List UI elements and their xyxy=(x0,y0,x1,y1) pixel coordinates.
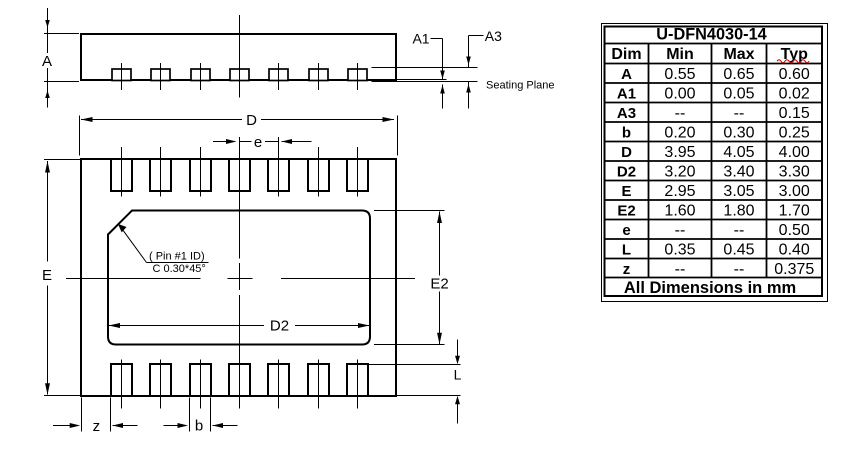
svg-text:0.05: 0.05 xyxy=(723,86,754,103)
svg-text:3.05: 3.05 xyxy=(723,183,754,200)
svg-text:--: -- xyxy=(734,261,745,278)
svg-text:--: -- xyxy=(675,222,686,239)
svg-text:U-DFN4030-14: U-DFN4030-14 xyxy=(656,26,766,44)
svg-text:z: z xyxy=(93,418,101,435)
svg-text:0.375: 0.375 xyxy=(774,261,814,278)
svg-text:E2: E2 xyxy=(430,275,448,292)
svg-text:e: e xyxy=(622,222,630,239)
svg-text:0.00: 0.00 xyxy=(664,86,695,103)
svg-text:0.02: 0.02 xyxy=(779,86,810,103)
svg-text:0.25: 0.25 xyxy=(779,125,810,142)
svg-text:E2: E2 xyxy=(617,203,635,220)
svg-text:0.15: 0.15 xyxy=(779,105,810,122)
svg-text:1.70: 1.70 xyxy=(779,203,810,220)
svg-text:Dim: Dim xyxy=(611,46,641,63)
svg-text:0.50: 0.50 xyxy=(779,222,810,239)
svg-text:3.30: 3.30 xyxy=(779,164,810,181)
svg-text:A: A xyxy=(42,53,52,70)
svg-text:b: b xyxy=(622,125,631,142)
svg-text:--: -- xyxy=(734,105,745,122)
svg-text:0.30: 0.30 xyxy=(723,125,754,142)
svg-text:D2: D2 xyxy=(270,318,289,335)
svg-text:0.35: 0.35 xyxy=(664,242,695,259)
svg-text:1.80: 1.80 xyxy=(723,203,754,220)
svg-text:3.00: 3.00 xyxy=(779,183,810,200)
svg-text:All Dimensions in mm: All Dimensions in mm xyxy=(624,279,796,297)
svg-text:D2: D2 xyxy=(617,164,636,181)
svg-text:A3: A3 xyxy=(617,105,636,122)
svg-text:L: L xyxy=(622,242,631,259)
svg-text:3.20: 3.20 xyxy=(664,164,695,181)
svg-text:b: b xyxy=(195,417,203,434)
svg-text:C 0.30*45°: C 0.30*45° xyxy=(153,263,206,275)
svg-text:0.20: 0.20 xyxy=(664,125,695,142)
svg-text:4.05: 4.05 xyxy=(723,144,754,161)
svg-text:0.55: 0.55 xyxy=(664,66,695,83)
svg-text:D: D xyxy=(621,144,632,161)
svg-text:Min: Min xyxy=(666,46,694,63)
svg-text:E: E xyxy=(621,183,631,200)
svg-text:1.60: 1.60 xyxy=(664,203,695,220)
svg-text:0.40: 0.40 xyxy=(779,242,810,259)
svg-text:3.95: 3.95 xyxy=(664,144,695,161)
svg-text:A3: A3 xyxy=(485,28,502,44)
svg-text:Seating Plane: Seating Plane xyxy=(486,80,555,92)
svg-text:e: e xyxy=(254,134,262,151)
svg-text:0.65: 0.65 xyxy=(723,66,754,83)
svg-text:A: A xyxy=(621,66,632,83)
svg-text:4.00: 4.00 xyxy=(779,144,810,161)
svg-text:--: -- xyxy=(734,222,745,239)
svg-text:2.95: 2.95 xyxy=(664,183,695,200)
svg-text:0.45: 0.45 xyxy=(723,242,754,259)
svg-text:z: z xyxy=(623,261,631,278)
svg-text:E: E xyxy=(42,267,52,284)
svg-text:--: -- xyxy=(675,261,686,278)
svg-text:--: -- xyxy=(675,105,686,122)
svg-text:3.40: 3.40 xyxy=(723,164,754,181)
svg-text:A1: A1 xyxy=(412,30,429,46)
svg-text:D: D xyxy=(246,112,257,129)
svg-text:A1: A1 xyxy=(617,86,636,103)
svg-text:L: L xyxy=(454,367,462,383)
svg-text:0.60: 0.60 xyxy=(779,66,810,83)
svg-text:Max: Max xyxy=(723,46,754,63)
svg-text:( Pin #1 ID): ( Pin #1 ID) xyxy=(149,251,205,263)
